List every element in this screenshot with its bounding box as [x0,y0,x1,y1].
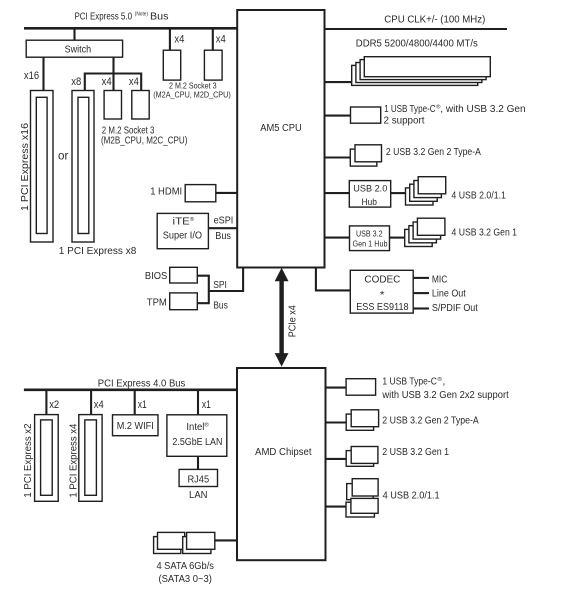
svg-text:AMD Chipset: AMD Chipset [255,447,312,458]
svg-text:PCIe x4: PCIe x4 [287,305,298,337]
svg-text:4 USB 2.0/1.1: 4 USB 2.0/1.1 [451,190,506,201]
block: USB 3.2 Gen 2 Type-A ports stack [350,145,381,166]
svg-text:CODEC: CODEC [364,274,400,285]
wire: SATA to chipset [215,539,237,541]
svg-text:, with USB 3.2 Gen: , with USB 3.2 Gen [440,104,525,115]
block: DDR5 DIMM stack [352,57,491,86]
svg-text:Bus: Bus [215,231,231,242]
block: HDMI port [185,185,216,202]
label: 2 M.2 Socket 3 (M2B_CPU, M2C_CPU) [101,126,187,147]
svg-text:BIOS: BIOS [145,271,168,282]
label: 1 USB Type-C, with USB 3.2 Gen 2 support [384,104,526,127]
block: 4 USB 2.0 ports stacks (bottom) [346,479,378,517]
wire: CPU to DDR5 [325,81,352,83]
wire: chipset to USB Type-C (bottom) [326,387,347,389]
svg-text:1 PCI Express x4: 1 PCI Express x4 [68,423,79,497]
block: CODEC ESS ES9118 [350,270,413,313]
svg-text:CPU CLK+/- (100 MHz): CPU CLK+/- (100 MHz) [384,15,485,26]
wire: CPU to USB 2.0 hub [325,192,350,194]
svg-text:2 USB 3.2 Gen 1: 2 USB 3.2 Gen 1 [382,447,449,458]
block: 4 USB 2.0 ports fan stack [406,177,446,205]
wire: LAN to RJ45 [197,456,199,469]
wire: branch horizontal [85,72,141,74]
slot: 1 PCI Express x16 outer [31,91,54,243]
svg-text:1 PCI Express x2: 1 PCI Express x2 [23,423,34,497]
wire: BIOS to SPI junction [197,276,209,291]
svg-text:LAN: LAN [189,490,208,501]
block: USB 3.2 Gen 1 ports stack (bottom) [346,447,378,467]
wire: iTE to CPU (eSPI bus) [208,227,237,229]
svg-text:or: or [58,148,68,162]
block: USB 2.0 Hub [349,181,390,208]
svg-text:MIC: MIC [432,274,448,285]
svg-text:1 PCI Express x16: 1 PCI Express x16 [20,123,31,211]
block: USB Type-C port (top) [351,107,381,123]
wire: bus to M2D socket [212,28,214,50]
svg-text:Gen 1 Hub: Gen 1 Hub [353,239,388,248]
wire: bus to M2A socket [169,28,171,50]
svg-text:iTE: iTE [173,216,191,227]
svg-text:DDR5 5200/4800/4400 MT/s: DDR5 5200/4800/4400 MT/s [356,39,478,50]
wire: USB 2.0 hub to ports [391,192,406,194]
svg-text:(SATA3 0~3): (SATA3 0~3) [159,574,212,585]
svg-text:®: ® [204,422,209,429]
wire: switch to x8/x4/x4 branch [112,57,114,74]
svg-text:(M2A_CPU, M2D_CPU): (M2A_CPU, M2D_CPU) [153,91,231,100]
wire: chipset to USB 3.2 Gen 1 [326,458,347,460]
bus: PCI Express 4.0 bus line [24,388,237,391]
svg-text:S/PDIF Out: S/PDIF Out [432,303,478,314]
wire: CODEC to Line Out [413,292,429,294]
wire: CPU CLK line [325,28,508,30]
svg-text:eSPI: eSPI [214,216,234,227]
wire: SPI bus to CPU [209,268,243,292]
slot: 1 PCI Express x4 inner [85,420,97,495]
svg-text:PCI Express 5.0: PCI Express 5.0 [75,12,133,23]
svg-text:PCI Express 4.0 Bus: PCI Express 4.0 Bus [98,378,186,389]
label: eSPI Bus [214,216,234,242]
wire: bus to x4 slot [90,390,92,415]
svg-text:®: ® [437,376,442,383]
svg-text:M.2 WIFI: M.2 WIFI [117,421,154,432]
svg-text:4 USB 3.2 Gen 1: 4 USB 3.2 Gen 1 [452,228,518,239]
svg-text:1 PCI Express x8: 1 PCI Express x8 [59,246,137,257]
wire: bus to x2 slot [45,390,47,415]
svg-text:2 M.2 Socket 3: 2 M.2 Socket 3 [169,82,217,91]
svg-text:4 USB 2.0/1.1: 4 USB 2.0/1.1 [383,490,440,501]
block: M.2 socket M2B_CPU [104,91,121,120]
wire: chipset to USB 2.0 ports [326,506,347,508]
block: AM5 CPU [237,10,324,268]
svg-text:Intel: Intel [186,422,204,433]
wire: HDMI to CPU [216,192,237,194]
svg-text:TPM: TPM [147,298,167,309]
wire: CPU to USB 3.2 Gen 1 hub [325,237,350,239]
svg-text:2 USB 3.2 Gen 2 Type-A: 2 USB 3.2 Gen 2 Type-A [382,416,479,427]
svg-text:2 support: 2 support [384,116,425,127]
block: USB 3.2 Gen 1 Hub [350,226,390,251]
svg-text:Super I/O: Super I/O [163,230,203,241]
block: 4 USB 3.2 Gen 1 ports fan stack [405,218,445,246]
wire: CPU to USB 3.2 Gen 2 Type-A [325,156,351,158]
slot: 1 PCI Express x4 outer [79,415,102,502]
wire: branch to x8 slot [84,73,86,91]
svg-text:,: , [442,377,445,388]
wire: bus to switch [73,28,75,40]
svg-text:x16: x16 [24,70,39,82]
wire: CODEC to MIC [413,277,429,279]
wire: CPU to CODEC [316,268,350,291]
block: M.2 WIFI [113,415,159,436]
svg-text:ESS ES9118: ESS ES9118 [356,302,409,313]
svg-text:RJ45: RJ45 [187,473,209,485]
svg-text:Switch: Switch [65,45,92,56]
slot: 1 PCI Express x2 inner [41,420,53,495]
svg-text:x1: x1 [202,399,211,411]
block: USB Type-C port (bottom) [346,379,376,396]
block: M.2 socket M2C_CPU [132,91,149,120]
block: RJ45 [179,469,217,486]
svg-text:1 USB Type-C: 1 USB Type-C [382,377,437,388]
svg-text:Hub: Hub [361,197,377,208]
svg-text:x4: x4 [174,33,184,45]
label: PCI Express 5.0 (Note) Bus [75,11,169,22]
block: Intel 2.5GbE LAN [167,415,227,457]
svg-text:1 HDMI: 1 HDMI [150,187,182,198]
svg-text:®: ® [190,216,194,223]
slot: 1 PCI Express x8 outer [72,91,94,243]
svg-text:x4: x4 [129,76,139,88]
svg-text:(Note): (Note) [135,11,148,17]
wire: USB 3.2 Gen 1 hub to ports [390,237,405,239]
wire: CPU to USB Type-C (top) [325,115,351,117]
block: SATA connectors stack [154,532,215,553]
svg-text:with USB 3.2 Gen 2x2 support: with USB 3.2 Gen 2x2 support [381,390,508,401]
wire: chipset to USB 3.2 Gen 2 Type-A [326,421,347,423]
label: 4 SATA 6Gb/s [156,561,214,585]
svg-text:4 SATA 6Gb/s: 4 SATA 6Gb/s [156,561,214,572]
block: USB 3.2 Gen 2 Type-A ports stack (bottom) [346,410,378,431]
svg-text:x2: x2 [49,399,59,411]
svg-text:1 USB Type-C: 1 USB Type-C [384,104,436,115]
block: TPM header [170,293,198,310]
slot: 1 PCI Express x2 outer [35,415,59,502]
svg-text:AM5 CPU: AM5 CPU [260,123,302,134]
wire: branch to M2C socket [140,73,142,91]
slot: 1 PCI Express x16 inner [36,97,47,233]
svg-text:x4: x4 [102,76,112,88]
svg-text:2.5GbE LAN: 2.5GbE LAN [172,437,222,448]
label: 1 USB Type-C, with USB 3.2 Gen 2x2 support [381,376,508,401]
label: SPI Bus [213,280,228,312]
slot: 1 PCI Express x8 inner [78,97,89,233]
wire: bus to M.2 WIFI [134,390,136,415]
wire: TPM to SPI junction [197,291,209,303]
block: BIOS chip [170,267,198,283]
wire: switch to x16 slot [42,57,44,91]
svg-text:(M2B_CPU, M2C_CPU): (M2B_CPU, M2C_CPU) [101,135,187,146]
svg-text:SPI: SPI [213,280,227,291]
svg-text:x4: x4 [94,399,104,411]
block: M.2 socket M2D_CPU [204,50,222,80]
svg-text:Bus: Bus [213,300,228,311]
wire: branch to M2B socket [112,74,114,91]
svg-text:2 USB 3.2 Gen 2 Type-A: 2 USB 3.2 Gen 2 Type-A [386,147,481,158]
svg-text:x1: x1 [138,399,147,411]
svg-text:USB 3.2: USB 3.2 [356,229,383,238]
bus: PCI Express 5.0 main bus line [24,27,238,30]
block: Switch [26,40,122,57]
label: 2 M.2 Socket 3 (M2A_CPU, M2D_CPU) [153,82,231,100]
wire: PCIe x4 double arrow CPU to chipset [275,268,289,367]
svg-text:Bus: Bus [150,12,169,23]
svg-text:x4: x4 [216,33,226,45]
svg-text:USB 2.0: USB 2.0 [353,184,387,195]
block: AMD Chipset [237,368,326,560]
svg-text:Line Out: Line Out [432,288,466,299]
block: M.2 socket M2A_CPU [163,50,180,80]
block: iTE Super I/O [157,213,208,248]
wire: bus to Intel LAN [197,390,199,415]
svg-text:x8: x8 [71,76,81,88]
wire: CODEC to S/PDIF Out [413,307,429,309]
svg-text:*: * [380,290,385,301]
